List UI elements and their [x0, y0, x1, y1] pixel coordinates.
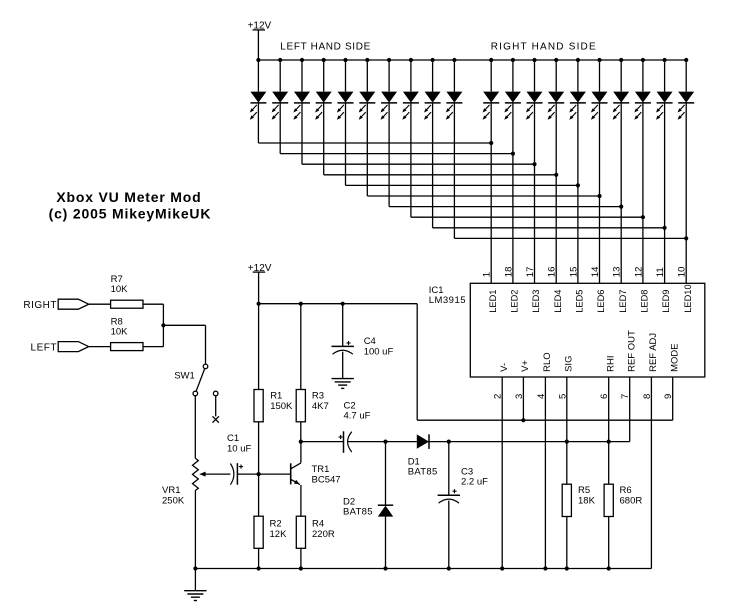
label R2 value	[270, 529, 288, 540]
wire cathode right LED8 to IC pin	[642, 103, 644, 283]
label R5	[578, 485, 590, 496]
svg-text:R3: R3	[312, 390, 324, 401]
svg-text:680R: 680R	[620, 495, 643, 506]
label D1 type	[408, 467, 438, 478]
LED right 2	[504, 92, 521, 120]
wire D1 to RHI	[429, 441, 609, 443]
node LED1 bus junction	[489, 141, 493, 145]
svg-text:Xbox VU Meter Mod: Xbox VU Meter Mod	[56, 189, 201, 205]
LED left 9	[424, 92, 441, 120]
label R6 value	[620, 495, 643, 506]
wire cathode left LED9	[432, 103, 434, 228]
wire anode left LED7	[388, 60, 390, 92]
label R3	[312, 390, 324, 401]
wire cathode left LED3	[301, 103, 303, 164]
capacitor C3	[438, 489, 460, 503]
wire LED1 bus	[258, 142, 491, 144]
wire LED10 bus	[454, 237, 686, 239]
wire LED5 bus	[346, 184, 578, 186]
wire anode right LED7	[620, 60, 622, 92]
node top rail right LED5	[576, 58, 580, 62]
svg-text:10K: 10K	[111, 327, 129, 338]
wire R1 to base node	[258, 422, 260, 516]
pin number 4	[536, 394, 547, 399]
wire cathode right LED2 to IC pin	[512, 103, 514, 283]
pin name V+	[520, 360, 531, 372]
wire mix node vertical	[162, 304, 164, 346]
svg-text:LED1: LED1	[488, 290, 498, 313]
svg-text:BAT85: BAT85	[343, 507, 373, 518]
wire anode left LED4	[323, 60, 325, 92]
wire cathode right LED9 to IC pin	[664, 103, 666, 283]
node ground rail C3	[447, 566, 451, 570]
LED left 8	[402, 92, 419, 120]
wire anode right LED10	[685, 60, 687, 92]
transistor TR1	[291, 442, 301, 517]
node top rail left LED1	[256, 58, 260, 62]
pin number 16	[547, 267, 558, 278]
label C2 value	[344, 411, 371, 422]
svg-text:1: 1	[482, 272, 493, 277]
svg-text:13: 13	[612, 267, 623, 278]
svg-text:2.2 uF: 2.2 uF	[461, 477, 488, 488]
wire anode left LED8	[410, 60, 412, 92]
node LED6 bus junction	[597, 194, 601, 198]
svg-text:R1: R1	[270, 390, 282, 401]
node SIG junction	[565, 440, 569, 444]
label RIGHT HAND SIDE	[491, 41, 597, 52]
label R2	[270, 518, 282, 529]
wire pin2 V- to ground rail	[501, 377, 503, 569]
label D1	[408, 456, 420, 467]
LED right 10	[678, 92, 695, 120]
wire pin3 V+	[522, 377, 524, 420]
svg-text:R4: R4	[312, 518, 324, 529]
svg-text:12K: 12K	[270, 529, 288, 540]
wire R2 to ground rail	[258, 548, 260, 568]
wire anode right LED6	[599, 60, 601, 92]
wire LED8 bus	[411, 216, 643, 218]
LED right 4	[548, 92, 565, 120]
node rail C4	[341, 302, 345, 306]
switch SW1 open throw contact	[213, 391, 218, 396]
pin number 12	[633, 267, 644, 278]
svg-text:SIG: SIG	[563, 356, 574, 372]
svg-text:D2: D2	[343, 496, 355, 507]
capacitor C1	[230, 463, 243, 485]
svg-text:R8: R8	[111, 316, 123, 327]
node ground rail RLO	[543, 566, 547, 570]
wire cathode right LED4 to IC pin	[555, 103, 557, 283]
pin number 13	[612, 267, 623, 278]
svg-text:250K: 250K	[162, 495, 185, 506]
label R4	[312, 518, 324, 529]
LED left 4	[315, 92, 332, 120]
power +12V (middle)	[248, 263, 272, 274]
svg-text:12: 12	[633, 267, 644, 278]
wire rail corner to V+ line	[416, 304, 418, 421]
wire LED7 bus	[389, 206, 621, 208]
svg-text:REF OUT: REF OUT	[626, 330, 637, 372]
resistor R3	[296, 390, 305, 422]
svg-text:4.7 uF: 4.7 uF	[344, 411, 371, 422]
wire LED4 bus	[324, 174, 557, 176]
title text 2	[49, 205, 212, 221]
wire anode right LED5	[577, 60, 579, 92]
wire RHI node to R6	[608, 442, 610, 485]
label C3	[461, 466, 473, 477]
node LED8 bus junction	[641, 215, 645, 219]
pin name REF OUT	[626, 330, 637, 372]
pin name REF ADJ	[648, 333, 659, 372]
LED left 1	[250, 92, 267, 120]
wire SIG node to R5	[566, 442, 568, 485]
node mix junction	[161, 323, 165, 327]
svg-text:MODE: MODE	[669, 343, 680, 372]
label LEFT	[31, 343, 57, 354]
pin name MODE	[669, 343, 680, 372]
pin number 1	[482, 272, 493, 277]
ground main	[184, 591, 206, 601]
wire cathode right LED1 to IC pin	[490, 103, 492, 283]
wire rail to R1	[258, 304, 260, 390]
wire LED6 bus	[367, 195, 599, 197]
node top rail right LED4	[554, 58, 558, 62]
svg-text:RIGHT HAND SIDE: RIGHT HAND SIDE	[491, 41, 597, 52]
svg-text:C3: C3	[461, 466, 473, 477]
wire pin5 SIG	[566, 377, 568, 442]
resistor R4	[296, 516, 305, 548]
svg-text:LED8: LED8	[640, 290, 650, 313]
pin number 9	[663, 394, 674, 399]
node top rail right LED10	[684, 58, 688, 62]
node top rail right LED1	[489, 58, 493, 62]
wire C1 to base node	[237, 473, 290, 475]
svg-text:LEFT: LEFT	[31, 343, 57, 354]
wire cathode left LED1	[257, 103, 259, 143]
LED left 7	[381, 92, 398, 120]
wire C3 to ground rail	[448, 501, 450, 569]
wire RIGHT to R7	[89, 303, 111, 305]
pin number 17	[525, 267, 536, 278]
potentiometer VR1	[193, 458, 199, 490]
wire pin4 RLO to ground rail	[544, 377, 546, 569]
node top rail right LED7	[619, 58, 623, 62]
wire pin9 MODE	[672, 377, 674, 420]
svg-text:15: 15	[568, 267, 579, 278]
node top rail left LED4	[322, 58, 326, 62]
svg-text:18K: 18K	[578, 495, 596, 506]
node ground rail V-	[500, 566, 504, 570]
wire R8 to corner	[143, 346, 163, 348]
label C4	[364, 336, 376, 347]
pin number 3	[514, 394, 525, 399]
LED right 5	[569, 92, 586, 120]
node rail R1	[257, 302, 261, 306]
wire SW1 to VR1	[194, 396, 196, 459]
wire cathode right LED10 to IC pin	[685, 103, 687, 283]
wire pin6 RHI	[608, 377, 610, 442]
svg-text:RHI: RHI	[605, 356, 616, 372]
wire LED2 bus	[280, 153, 513, 155]
svg-text:R6: R6	[620, 485, 632, 496]
node LED5 bus junction	[576, 183, 580, 187]
svg-text:LED2: LED2	[510, 290, 520, 313]
pin number 6	[599, 394, 610, 399]
pin number 5	[557, 394, 568, 399]
wire cathode left LED7	[388, 103, 390, 207]
label C1	[227, 433, 239, 444]
pin name LED8	[640, 290, 650, 313]
svg-text:LED6: LED6	[596, 290, 606, 313]
diode D2	[378, 505, 393, 516]
pin number 2	[493, 394, 504, 399]
label D2	[343, 496, 355, 507]
wire middle +12V rail	[259, 303, 418, 305]
pin name RHI	[605, 356, 616, 372]
wire C4 to ground	[342, 352, 344, 379]
svg-text:150K: 150K	[270, 401, 293, 412]
wire RHI to REF OUT corner	[609, 377, 630, 442]
capacitor C4	[332, 341, 354, 354]
wire ground rail	[195, 568, 651, 570]
wire VR1 to ground rail	[194, 491, 196, 569]
svg-text:11: 11	[655, 267, 666, 277]
LED left 10	[446, 92, 463, 120]
label C1 value	[227, 443, 251, 454]
pin name LED5	[575, 290, 585, 313]
node LED4 bus junction	[554, 173, 558, 177]
svg-text:V+: V+	[520, 360, 531, 372]
wire anode left LED1	[257, 60, 259, 92]
svg-text:17: 17	[525, 267, 536, 278]
svg-text:LED5: LED5	[575, 290, 585, 313]
pin name LED10	[683, 284, 693, 312]
svg-text:REF ADJ: REF ADJ	[648, 333, 659, 372]
wire cathode left LED5	[345, 103, 347, 185]
wire +12V middle drop	[258, 272, 260, 304]
wire anode left LED6	[366, 60, 368, 92]
wire R7 to corner	[143, 303, 163, 305]
wire cathode right LED7 to IC pin	[620, 103, 622, 283]
diode D1	[417, 434, 429, 449]
wire cathode left LED8	[410, 103, 412, 217]
label C2	[344, 400, 356, 411]
wire ground stub	[194, 569, 196, 591]
wire R4 to ground rail	[300, 548, 302, 568]
label R5 value	[578, 495, 596, 506]
title text	[56, 189, 201, 205]
connector LEFT	[58, 342, 88, 352]
pin name LED9	[661, 290, 671, 313]
label R3 value	[312, 401, 329, 412]
svg-text:100 uF: 100 uF	[364, 347, 394, 358]
wire R3 to collector node	[300, 422, 302, 442]
pin name LED7	[618, 290, 628, 313]
svg-text:4K7: 4K7	[312, 401, 329, 412]
svg-text:LED4: LED4	[553, 290, 563, 313]
node top rail left LED5	[343, 58, 347, 62]
node ground rail VR1	[193, 566, 197, 570]
wire signal to C3	[448, 442, 450, 496]
wire anode right LED9	[664, 60, 666, 92]
node C3 junction	[447, 440, 451, 444]
svg-text:VR1: VR1	[162, 485, 180, 496]
capacitor C2	[339, 431, 352, 453]
switch SW1 blade	[196, 369, 205, 392]
LED left 6	[359, 92, 376, 120]
wire cathode right LED5 to IC pin	[577, 103, 579, 283]
LED left 2	[272, 92, 289, 120]
wire LEFT to R8	[89, 346, 111, 348]
svg-text:LED7: LED7	[618, 290, 628, 313]
wire D2 to ground rail	[385, 517, 387, 569]
svg-text:C2: C2	[344, 400, 356, 411]
LED right 9	[656, 92, 673, 120]
svg-text:C1: C1	[227, 433, 239, 444]
label LM3915	[429, 295, 466, 306]
svg-text:10 uF: 10 uF	[227, 443, 251, 454]
pin name LED3	[531, 290, 541, 313]
node ground rail R4	[299, 566, 303, 570]
label R1	[270, 390, 282, 401]
resistor R7	[111, 300, 143, 308]
label VR1 value	[162, 495, 185, 506]
pin name LED6	[596, 290, 606, 313]
wire cathode right LED6 to IC pin	[599, 103, 601, 283]
wire cathode left LED2	[279, 103, 281, 154]
wire +12V to top rail	[257, 30, 259, 60]
wire anode left LED2	[279, 60, 281, 92]
svg-text:BAT85: BAT85	[408, 467, 438, 478]
node collector junction	[299, 440, 303, 444]
node top rail left LED6	[365, 58, 369, 62]
wire signal to D2	[385, 442, 387, 506]
op-amp IC1 LM3915 box	[470, 283, 705, 377]
svg-text:IC1: IC1	[429, 285, 444, 296]
svg-text:RIGHT: RIGHT	[23, 300, 57, 311]
ground C4	[332, 379, 354, 389]
wire pin8 REF ADJ to ground rail	[650, 377, 652, 569]
label C3 value	[461, 477, 488, 488]
no-connect X	[213, 416, 219, 422]
switch SW1 pole contact	[203, 364, 208, 369]
label D2 type	[343, 507, 373, 518]
node RHI junction	[607, 440, 611, 444]
svg-text:RLO: RLO	[542, 352, 553, 372]
node top rail right LED6	[597, 58, 601, 62]
label TR1	[312, 464, 330, 475]
node ground rail D2	[383, 566, 387, 570]
node top rail right LED8	[641, 58, 645, 62]
LED right 8	[634, 92, 651, 120]
resistor R1	[254, 390, 263, 422]
node top rail right LED9	[663, 58, 667, 62]
node base junction	[257, 472, 261, 476]
svg-text:(c) 2005 MikeyMikeUK: (c) 2005 MikeyMikeUK	[49, 205, 212, 221]
wire LED9 bus	[433, 227, 665, 229]
svg-text:C4: C4	[364, 336, 376, 347]
svg-text:LED9: LED9	[661, 290, 671, 313]
power +12V (top)	[248, 21, 272, 32]
svg-text:14: 14	[590, 267, 601, 278]
node rail R3	[299, 302, 303, 306]
wire rail to R3	[300, 304, 302, 390]
pin number 18	[503, 267, 514, 278]
svg-text:R2: R2	[270, 518, 282, 529]
wire anode right LED1	[490, 60, 492, 92]
pin name V-	[499, 363, 510, 372]
pin name LED2	[510, 290, 520, 313]
node top rail left LED8	[409, 58, 413, 62]
wire mix to SW1	[163, 325, 205, 364]
pin name SIG	[563, 356, 574, 372]
wire collector node to C2	[301, 441, 344, 443]
node top rail left LED10	[452, 58, 456, 62]
label R1 value	[270, 401, 293, 412]
node D2 junction	[383, 440, 387, 444]
node LED2 bus junction	[511, 152, 515, 156]
resistor R6	[604, 484, 613, 516]
label SW1	[174, 371, 195, 382]
svg-text:10: 10	[677, 267, 688, 278]
svg-text:10K: 10K	[111, 284, 129, 295]
svg-text:LED3: LED3	[531, 290, 541, 313]
label C4 value	[364, 347, 394, 358]
wire anode left LED10	[453, 60, 455, 92]
svg-text:TR1: TR1	[312, 464, 330, 475]
LED right 7	[613, 92, 630, 120]
svg-text:LED10: LED10	[683, 284, 693, 312]
label R7	[111, 274, 123, 285]
connector RIGHT	[58, 299, 88, 309]
label R6	[620, 485, 632, 496]
node top rail left LED2	[278, 58, 282, 62]
svg-text:LM3915: LM3915	[429, 295, 466, 306]
label R8 value	[111, 327, 129, 338]
node LED7 bus junction	[619, 205, 623, 209]
label VR1	[162, 485, 180, 496]
svg-text:V-: V-	[499, 363, 510, 372]
wire anode left LED9	[432, 60, 434, 92]
svg-text:R5: R5	[578, 485, 590, 496]
resistor R8	[111, 343, 143, 351]
VR1 wiper arrow	[199, 472, 230, 477]
node ground rail R5	[565, 566, 569, 570]
label R7 value	[111, 284, 129, 295]
wire cathode left LED4	[323, 103, 325, 175]
LED right 3	[526, 92, 543, 120]
wire anode right LED8	[642, 60, 644, 92]
node ground rail R2	[257, 566, 261, 570]
node top rail left LED7	[387, 58, 391, 62]
pin number 11	[655, 267, 666, 277]
wire rail to C4	[342, 304, 344, 347]
wire open throw stub	[215, 396, 217, 417]
LED right 6	[591, 92, 608, 120]
node top rail left LED9	[431, 58, 435, 62]
node LED3 bus junction	[532, 162, 536, 166]
wire anode left LED5	[345, 60, 347, 92]
wire R6 to ground rail	[608, 517, 610, 569]
svg-text:R7: R7	[111, 274, 123, 285]
svg-text:220R: 220R	[312, 529, 335, 540]
wire cathode left LED10	[453, 103, 455, 239]
LED left 3	[293, 92, 310, 120]
pin name RLO	[542, 352, 553, 372]
wire anode right LED4	[555, 60, 557, 92]
pin number 14	[590, 267, 601, 278]
